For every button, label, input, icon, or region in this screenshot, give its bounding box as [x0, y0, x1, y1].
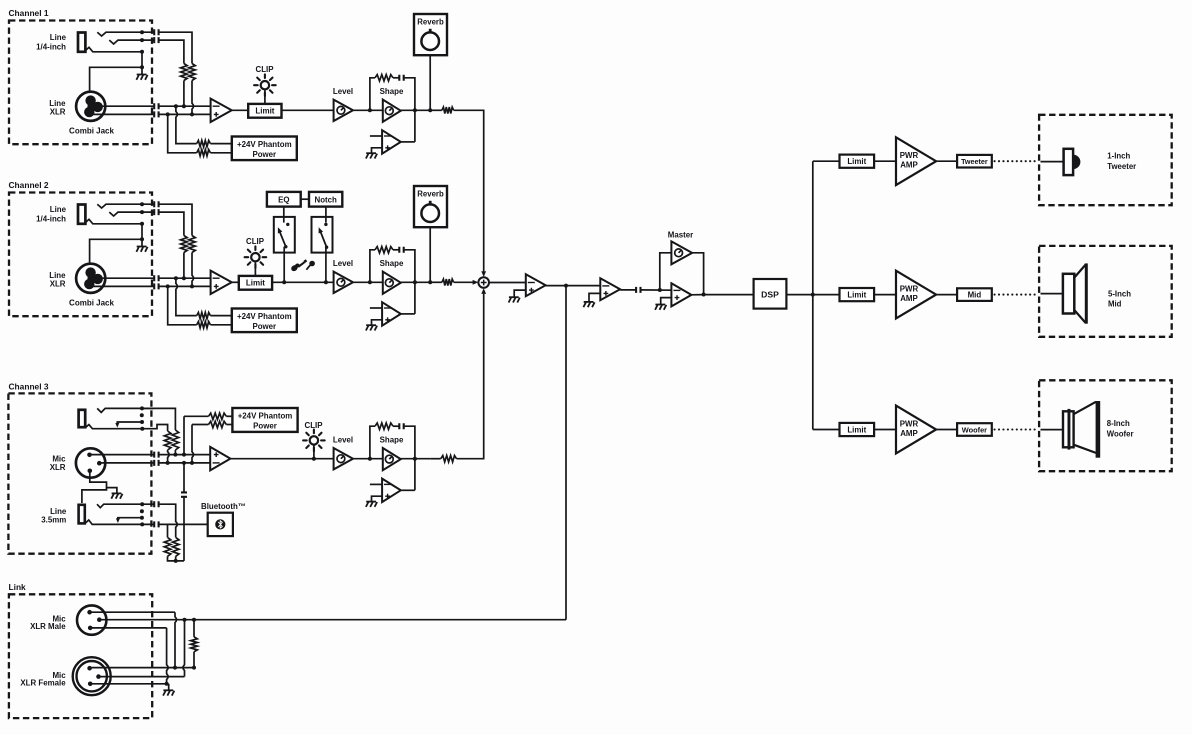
svg-text:Power: Power [252, 150, 276, 159]
female pin2 wire [99, 676, 185, 678]
arrow into summing node from ch3 [481, 288, 486, 294]
junction dot sleeve (J3c) [140, 522, 144, 526]
wire Limit to PWR AMP (Mid) [874, 294, 896, 296]
Level control amp [334, 100, 353, 121]
junction dot bottom tie [174, 559, 178, 563]
svg-text:Tweeter: Tweeter [961, 157, 988, 166]
svg-text:Limit: Limit [255, 107, 274, 116]
svg-text:8-Inch: 8-Inch [1107, 419, 1130, 428]
coupling capacitor C tip [154, 201, 158, 207]
wire DSP to crossover bus [786, 294, 812, 296]
bluetooth/aux column with capacitor [183, 463, 185, 493]
CLIP LED (ch3) [310, 436, 318, 444]
termination resistor column (link) [193, 620, 195, 637]
junction dot sleeve [140, 50, 144, 54]
junction dot [182, 104, 186, 108]
wire tip to divider resistor [159, 32, 192, 63]
junction dot EQ [282, 280, 286, 284]
junction dot tip (J3c) [140, 502, 144, 506]
svg-text:Level: Level [333, 259, 353, 268]
svg-text:1-Inch: 1-Inch [1107, 152, 1130, 161]
svg-text:Woofer: Woofer [1107, 430, 1134, 439]
op-amp shape B [382, 302, 401, 326]
Notch switch arm [320, 231, 326, 247]
resistor R phantom hot [197, 140, 211, 146]
svg-text:CLIP: CLIP [246, 237, 264, 246]
ground (channel input) [137, 74, 147, 76]
EQ switch arm [280, 231, 286, 247]
wire EQ to switch [283, 207, 285, 223]
junction dot switch (J3c) [140, 516, 144, 520]
link pin3 wire [90, 627, 166, 629]
wire Level to Shape [353, 109, 383, 111]
capacitor C shape feedback [399, 423, 403, 429]
op-amp U3a preamp (ch3) [210, 447, 230, 471]
svg-text:Line: Line [50, 507, 67, 516]
capacitor C aux column [181, 492, 187, 496]
wire master level input leg [660, 253, 672, 290]
link pin1 wire [90, 611, 175, 613]
svg-text:XLR: XLR [50, 463, 66, 472]
CLIP LED [251, 253, 259, 261]
wire shape B output [401, 141, 415, 143]
wire Limit to PWR AMP (Tweeter) [874, 160, 896, 162]
PWR AMP (Tweeter) [896, 137, 936, 185]
wire hot line to preamp [159, 277, 211, 279]
wire Limit to PWR AMP (Woofer) [874, 429, 896, 431]
op-amp shape A [383, 272, 401, 294]
junction dot aux column [182, 461, 186, 465]
ground (master) [655, 304, 665, 306]
combi jack J1b pin cluster [85, 95, 95, 105]
coupling capacitor C cold [154, 111, 158, 117]
capacitor C shape feedback [399, 247, 403, 253]
Reverb block [414, 14, 447, 55]
wire hot line to preamp (ch3) [159, 454, 211, 456]
op-amp U11 mix B [600, 278, 620, 300]
XLR female pins [87, 666, 92, 671]
wire tip to divider resistor [159, 204, 192, 235]
wire Reverb to channel output [429, 55, 431, 110]
ground (channel input) [137, 246, 147, 248]
XLR cold output wire [92, 285, 154, 287]
junction dot crossover bus [811, 293, 815, 297]
wire phantom cold drop [168, 114, 197, 152]
wire to summing resistor (ch2) [430, 281, 442, 283]
wire sleeve line to bluetooth column [159, 523, 184, 525]
tweeter driver icon [1064, 149, 1074, 175]
svg-text:Mid: Mid [1108, 300, 1122, 309]
junction dot tip [140, 30, 144, 34]
wire to shape B inverting input [370, 135, 382, 137]
resistor R ring divider [181, 236, 188, 253]
svg-text:Channel 3: Channel 3 [9, 381, 49, 391]
capacitor C shape feedback [399, 75, 403, 81]
svg-text:Mid: Mid [968, 290, 982, 299]
junction dot reverb [428, 108, 432, 112]
junction dot termination bottom [192, 666, 196, 670]
resistor R link termination [191, 637, 198, 652]
svg-text:Shape: Shape [380, 87, 404, 96]
link bus wire (pin2) [99, 619, 566, 621]
Channel 1 enclosure (dashed) [9, 21, 152, 145]
svg-text:CLIP: CLIP [305, 421, 323, 430]
op-amp U2a preamp [211, 271, 232, 294]
wire stub to ground [141, 67, 143, 74]
XLR pin1 wire (hot) [90, 454, 155, 456]
wire master level output leg [692, 253, 704, 295]
jack J3c switch contact arrow [118, 518, 142, 520]
wire summing node to mix amp A [489, 282, 526, 284]
jack J3a tip contact [97, 408, 154, 412]
svg-text:Channel 1: Channel 1 [9, 8, 49, 18]
combi jack J2b XLR body [76, 264, 105, 293]
junction dot shape output [413, 280, 417, 284]
junction dot master loop [658, 288, 662, 292]
resistor R mix sleeve (J3c) [164, 537, 171, 556]
Limit block [239, 276, 272, 290]
svg-text:Line: Line [50, 33, 67, 42]
junction dot reverb [428, 280, 432, 284]
CLIP LED [261, 81, 269, 89]
Bluetooth block [208, 513, 233, 536]
svg-text:CLIP: CLIP [256, 65, 274, 74]
jack J1a sleeve contact [86, 47, 142, 52]
resistor R sum ch3 [441, 456, 457, 462]
wire ring resistor to XLR hot line [183, 81, 185, 107]
Channel 2 enclosure (dashed) [9, 193, 152, 317]
wire shape A output [401, 458, 430, 460]
svg-text:XLR Female: XLR Female [20, 679, 66, 688]
junction dot termination top [192, 618, 196, 622]
Mic XLR J3b pins [87, 453, 92, 458]
resistor R phantom cold [197, 150, 211, 156]
wire EQ to Notch [301, 198, 309, 200]
op-amp shape B [382, 130, 401, 154]
ground (link) [163, 689, 173, 691]
Master level control [671, 241, 692, 264]
XLR male pins [87, 610, 92, 615]
link pin1 drop (hops pin2 wire) [175, 612, 177, 667]
svg-text:EQ: EQ [278, 195, 289, 204]
svg-text:XLR: XLR [50, 107, 66, 116]
ground (shape) [366, 501, 376, 503]
svg-text:XLR Male: XLR Male [30, 622, 66, 631]
jack J3c sleeve contact [85, 520, 154, 524]
jack J3c 3.5mm sleeve [79, 505, 85, 524]
svg-text:1/4-inch: 1/4-inch [36, 215, 66, 224]
wire Level to Shape [353, 458, 383, 460]
wire to summing resistor (ch1) [430, 109, 442, 111]
junction left mix resistor [167, 524, 169, 537]
jack J2a ring contact [109, 212, 154, 216]
ground (mix A) [509, 296, 519, 298]
speaker enclosure mid (dashed) [1039, 246, 1172, 337]
coupling capacitor C hot [154, 103, 158, 109]
wire Limit to Level (ch1) [282, 109, 334, 111]
EQ switch box [274, 217, 295, 253]
wire preamp to Limit [232, 109, 249, 111]
woofer driver icon [1063, 411, 1074, 447]
svg-text:Reverb: Reverb [417, 190, 444, 199]
coupling capacitor tip (J3c) [154, 501, 158, 507]
wire shape A output [401, 281, 430, 283]
svg-text:Power: Power [253, 422, 277, 431]
svg-text:1/4-inch: 1/4-inch [36, 43, 66, 52]
svg-text:XLR: XLR [50, 279, 66, 288]
svg-text:Shape: Shape [380, 436, 404, 445]
coupling capacitor sleeve (J3c) [154, 521, 158, 527]
wire ch2 output into summing node [454, 281, 474, 283]
junction dot phantom cold (ch3) [190, 461, 194, 465]
ground (mix B) [584, 301, 594, 303]
wire mix B ground leg [589, 293, 600, 301]
Channel 3 enclosure (dashed) [8, 393, 151, 553]
wires resistors to phantom supply [210, 315, 231, 317]
svg-text:Woofer: Woofer [962, 425, 987, 434]
Mic XLR J3b body [76, 448, 105, 477]
+24V Phantom Power block (ch3) [232, 408, 297, 432]
svg-text:5-Inch: 5-Inch [1108, 289, 1131, 298]
junction dot ring [140, 210, 144, 214]
resistor R tip divider [189, 236, 196, 253]
XLR female connector body [73, 657, 111, 695]
coupling capacitor C ring [154, 37, 158, 43]
svg-text:+24V Phantom: +24V Phantom [237, 140, 292, 149]
combi jack J1b XLR body [76, 92, 105, 121]
jack J1a ring contact [109, 40, 154, 44]
jack J2a sleeve contact [86, 219, 142, 224]
resistor R sum ch2 [442, 279, 454, 285]
wire shape B output [401, 313, 415, 315]
junction dot tip [140, 202, 144, 206]
wire shape B output [401, 489, 415, 491]
op-amp U12 master [671, 283, 691, 306]
coupling capacitor cold (ch3) [154, 460, 158, 466]
svg-text:PWR: PWR [900, 419, 919, 428]
wire RB to hot line [174, 450, 176, 455]
svg-text:Limit: Limit [847, 425, 866, 434]
wire bus to Limit (Tweeter) [813, 160, 840, 162]
junction dot pin2 riser [183, 618, 187, 622]
svg-text:Level: Level [333, 87, 353, 96]
op-amp shape A [383, 100, 401, 122]
Shape feedback right leg [404, 250, 415, 314]
guitar icon [290, 259, 307, 272]
wire EQ switch to channel line [283, 247, 285, 283]
wires to phantom block (ch3) [226, 415, 232, 417]
+24V Phantom Power block [232, 137, 297, 161]
Notch block [309, 192, 342, 207]
wire to feedback capacitor [393, 425, 399, 427]
wire LED to Limit block [254, 262, 256, 276]
svg-text:AMP: AMP [900, 294, 918, 303]
coupling capacitor C cold [154, 283, 158, 289]
svg-text:Shape: Shape [380, 259, 404, 268]
wire mix A ground leg [514, 290, 526, 297]
dotted connection to speaker (Tweeter) [995, 160, 1038, 162]
junction dot sleeve [140, 222, 144, 226]
wire bus to Limit (Woofer) [813, 429, 840, 431]
resistor R tip divider [189, 64, 196, 81]
wire LED to Limit block [264, 90, 266, 104]
Shape feedback left leg [370, 78, 375, 111]
wire cold line to preamp [159, 285, 211, 287]
junction dot tip (J3a) [140, 406, 144, 410]
wire into tweeter [1041, 161, 1064, 163]
resistor R shape feedback [375, 75, 393, 81]
jack J3a sleeve contact [86, 425, 143, 429]
svg-text:Bluetooth™: Bluetooth™ [201, 502, 246, 511]
wire mix B output to master [620, 289, 636, 291]
Notch switch box [312, 217, 333, 253]
svg-text:Channel 2: Channel 2 [9, 180, 49, 190]
wire master ground leg [661, 298, 672, 305]
wire PWR AMP to output (Mid) [936, 294, 957, 296]
bottom tie wire (J3c resistors) [168, 556, 185, 561]
junction dot phantom feed cold [166, 284, 170, 288]
junction dot link feed [564, 284, 568, 288]
XLR cold output wire [92, 113, 154, 115]
svg-text:Combi Jack: Combi Jack [69, 127, 114, 136]
resistor R phantom hot [197, 312, 211, 318]
crossover bus riser [812, 161, 814, 429]
junction dot [182, 276, 186, 280]
wire PWR AMP to output (Tweeter) [936, 160, 957, 162]
wire ring resistor to XLR hot line [183, 253, 185, 279]
wire into woofer [1041, 429, 1064, 431]
junction dot [190, 112, 194, 116]
ground (ch3 XLR) [112, 492, 122, 494]
coupling capacitor hot (ch3) [154, 452, 158, 458]
arrow into summing node from ch1 [481, 271, 486, 277]
coupling capacitor C tip [154, 29, 158, 35]
junction dot [190, 284, 194, 288]
Limit block (Mid) [840, 288, 875, 301]
junction dot [140, 65, 144, 69]
female pin2 riser (hops pin1 wire) [183, 620, 185, 677]
wire shape B ground leg [372, 148, 383, 153]
wire tip to resistor RB [142, 408, 175, 430]
wire XLR shell to 3.5mm sleeve [82, 488, 107, 503]
ring contact dot (J3a) [140, 413, 144, 417]
junction dot Notch [324, 280, 328, 284]
+24V phantom drop hot (ch3) [183, 416, 185, 454]
wire ring to divider resistor [159, 212, 184, 235]
wire to Bluetooth block [184, 523, 208, 525]
resistor R mix tip (J3c) [172, 537, 179, 556]
svg-text:PWR: PWR [900, 151, 919, 160]
Shape feedback left leg [370, 426, 375, 459]
wire into mid [1041, 293, 1063, 295]
wire Reverb to channel output [429, 227, 431, 282]
wire to feedback capacitor [393, 249, 399, 251]
svg-text:Notch: Notch [315, 195, 338, 204]
wire Notch to switch [325, 207, 327, 223]
wire to feedback capacitor [393, 77, 399, 79]
svg-text:PWR: PWR [900, 285, 919, 294]
junction dot shape input [368, 108, 372, 112]
svg-text:Master: Master [668, 230, 693, 239]
wire mix A to mix B [546, 285, 601, 287]
speaker enclosure tweeter (dashed) [1039, 115, 1172, 205]
junction dot [140, 237, 144, 241]
ground (shape) [366, 324, 376, 326]
dotted connection to speaker (Woofer) [995, 428, 1038, 430]
svg-text:AMP: AMP [900, 161, 918, 170]
svg-text:Reverb: Reverb [417, 18, 444, 27]
Link enclosure (dashed) [9, 594, 152, 718]
dotted connection to speaker (Mid) [995, 294, 1038, 296]
wire cold line to preamp [159, 113, 211, 115]
wire sleeve staircase to resistor RA [142, 425, 167, 432]
jack J3a 1/4-inch sleeve [79, 410, 86, 427]
female pin1 wire [90, 667, 194, 669]
XLR pin2 wire (cold) [99, 462, 154, 464]
wire preamp to Limit [232, 281, 239, 283]
resistor R phantom cold [197, 322, 211, 328]
coupling capacitor C hot [154, 275, 158, 281]
svg-text:+24V Phantom: +24V Phantom [238, 411, 293, 420]
link feed riser to mix bus [565, 286, 567, 620]
ground (shape) [366, 152, 376, 154]
wire to shape B inverting input [370, 307, 382, 309]
XLR hot output wire [94, 105, 154, 107]
wire LED to line (ch3) [313, 445, 315, 458]
Shape feedback left leg [370, 250, 375, 282]
EQ block [267, 192, 301, 207]
jack J1a Line 1/4-inch sleeve [78, 33, 85, 52]
Level control amp [334, 448, 353, 469]
wire shape B ground leg [372, 496, 383, 501]
output block (Mid) [957, 288, 992, 301]
wire preamp out to Level (ch3) [230, 458, 333, 460]
PWR AMP (Woofer) [896, 406, 936, 454]
wire phantom resistors (ch3) [184, 415, 209, 417]
svg-text:Limit: Limit [246, 279, 265, 288]
mid driver icon [1063, 274, 1074, 314]
wires resistors to phantom supply [210, 143, 231, 145]
wire ch3 output to summing node [457, 294, 484, 459]
junction dot shape output [413, 457, 417, 461]
svg-text:Limit: Limit [847, 291, 866, 300]
junction dot switch (J3a) [140, 420, 144, 424]
output block (Woofer) [957, 423, 992, 436]
ring contact dot (J3c) [140, 509, 144, 513]
jack J3c tip contact [97, 504, 154, 508]
junction dot pin1 [173, 666, 177, 670]
DSP block [754, 279, 787, 309]
Notch switch contact dot [324, 223, 327, 226]
EQ switch contact dot [286, 223, 289, 226]
Level control amp [334, 272, 353, 293]
arrow into summing node from ch2 [473, 280, 479, 285]
resistor R phantom cold (ch3) [209, 421, 227, 427]
wire shape A output [401, 109, 430, 111]
svg-text:+24V Phantom: +24V Phantom [237, 312, 292, 321]
wire tip resistor to XLR cold line (hops hot line) [192, 253, 194, 287]
Reverb block [414, 186, 447, 227]
output block (Tweeter) [957, 155, 992, 168]
svg-text:Combi Jack: Combi Jack [69, 299, 114, 308]
PWR AMP (Mid) [896, 271, 936, 319]
resistor R sum ch1 [442, 107, 454, 113]
XLR male connector body [77, 605, 106, 634]
wire Level to Shape [353, 281, 383, 283]
jack J2a tip contact [97, 204, 154, 208]
female pin3 wire [90, 683, 169, 685]
combi jack J2b pin cluster [85, 267, 95, 277]
